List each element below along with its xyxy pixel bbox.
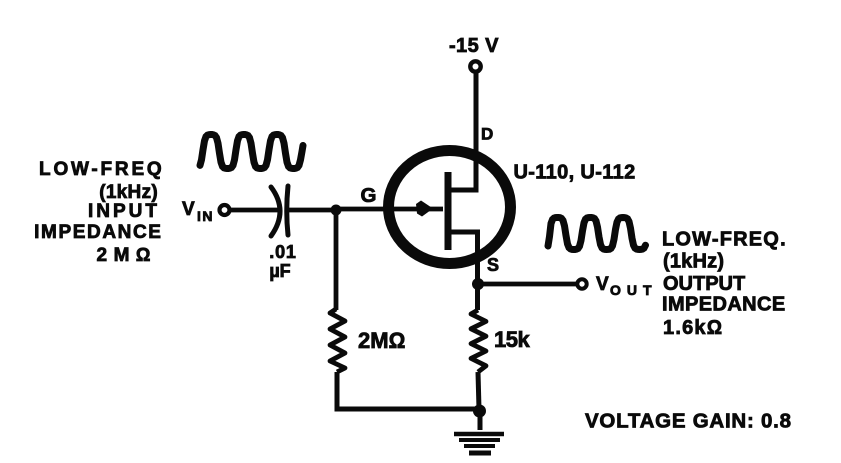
input terminal [220,205,230,215]
power terminal -15V [470,61,480,71]
svg-text:V: V [596,274,609,295]
label .01 µF [269,242,296,281]
ground [454,434,504,453]
output terminal [577,279,586,288]
svg-text:VOLTAGE GAIN: 0.8: VOLTAGE GAIN: 0.8 [585,410,792,433]
svg-text:INPUT: INPUT [88,201,160,222]
svg-text:G: G [361,184,377,207]
node C ground junction [473,405,486,418]
label Vout [596,274,658,298]
svg-text:.01: .01 [269,242,296,262]
label LOW-FREQ. (1kHz) OUTPUT IMPEDANCE 1.6kΩ [662,229,787,340]
label LOW-FREQ (1kHz) INPUT IMPEDANCE 2MΩ [34,159,164,266]
node A gate junction [331,205,342,216]
svg-text:U-110, U-112: U-110, U-112 [514,162,636,184]
svg-text:15k: 15k [494,327,530,352]
svg-text:OUT: OUT [610,282,658,298]
svg-text:µF: µF [269,261,290,281]
svg-text:2MΩ: 2MΩ [358,328,405,353]
svg-text:IMPEDANCE: IMPEDANCE [34,222,162,243]
transistor Q1 U-110/U-112 JFET [389,72,511,310]
capacitor C1 .01uF [271,186,288,236]
input waveform sine squiggle [200,135,303,169]
JFET channel bar [445,172,452,250]
wire gate node to JFET gate [336,207,443,212]
node B source junction [472,278,484,290]
svg-text:1.6kΩ: 1.6kΩ [663,317,723,339]
svg-text:S: S [487,255,499,275]
wire R1 bottom to ground rail [337,372,478,409]
svg-text:LOW-FREQ.: LOW-FREQ. [662,229,787,251]
gate arrowhead [416,201,433,217]
svg-text:LOW-FREQ: LOW-FREQ [39,159,164,180]
svg-text:-15 V: -15 V [449,35,499,57]
svg-text:OUTPUT: OUTPUT [663,273,745,295]
svg-text:2MΩ: 2MΩ [97,245,158,266]
svg-text:(1kHz): (1kHz) [99,182,158,203]
resistor R2 15k [471,310,486,372]
svg-text:D: D [481,125,493,144]
resistor R1 2MΩ [330,309,345,372]
source lead inside [448,232,478,310]
wire stub to ground [478,411,483,430]
wire Vin to capacitor [229,208,279,213]
wire source node to Vout [478,282,577,287]
svg-text:IN: IN [197,208,214,224]
wire R2 bottom to ground node [478,372,479,409]
label Vin [182,199,214,224]
wire capacitor to gate node [289,208,336,213]
wire gate node down to R1 [334,210,339,310]
svg-text:IMPEDANCE: IMPEDANCE [662,294,786,316]
drain lead inside [448,72,476,190]
svg-text:(1kHz): (1kHz) [663,251,724,273]
output waveform sine squiggle [548,218,646,250]
JFET envelope circle [389,151,511,264]
svg-text:V: V [182,199,195,220]
